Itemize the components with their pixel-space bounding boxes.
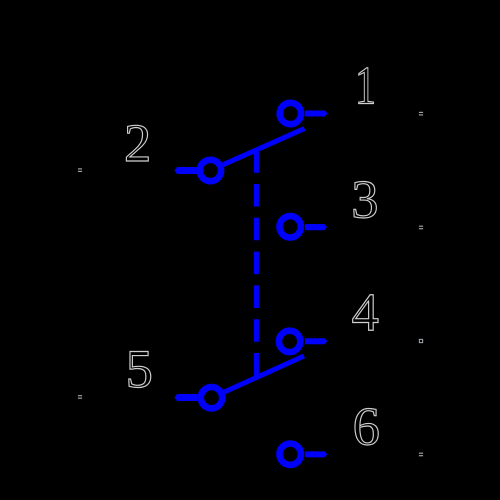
wire: mechanical linkage (dashed) between poles bbox=[254, 150, 259, 377]
switch arm pole B (5 to 4) bbox=[224, 356, 304, 392]
svg-text:4: 4 bbox=[352, 282, 379, 343]
terminal contact 2 (common pole A) bbox=[200, 160, 221, 181]
svg-text:2: 2 bbox=[124, 112, 151, 173]
svg-text:3: 3 bbox=[351, 169, 378, 230]
terminal contact 3 bbox=[280, 216, 301, 237]
wire: stub pin 3 bbox=[305, 224, 327, 230]
node pin-end mark 1 bbox=[419, 112, 423, 116]
terminal contact 4 bbox=[279, 331, 300, 352]
pin number 1 bbox=[355, 55, 376, 116]
wire: stub pin 6 bbox=[305, 451, 327, 457]
wire: stub pin 1 bbox=[305, 111, 328, 117]
svg-text:1: 1 bbox=[355, 55, 376, 116]
node pin-end mark 4 bbox=[419, 339, 422, 342]
terminal contact 5 (common pole B) bbox=[201, 387, 222, 408]
wire: stub pin 4 bbox=[305, 338, 328, 344]
node pin-end mark 2 bbox=[78, 168, 82, 172]
terminal contact 1 bbox=[280, 103, 301, 124]
wire: stub pin 5 bbox=[174, 394, 197, 401]
wire: stub pin 2 bbox=[174, 167, 197, 174]
svg-text:6: 6 bbox=[353, 395, 380, 456]
switch arm pole A (2 to 1) bbox=[223, 129, 304, 165]
node pin-end mark 5 bbox=[78, 395, 82, 399]
svg-text:5: 5 bbox=[126, 338, 153, 399]
node pin-end mark 6 bbox=[419, 453, 423, 457]
terminal contact 6 bbox=[280, 444, 301, 465]
node pin-end mark 3 bbox=[419, 226, 423, 230]
